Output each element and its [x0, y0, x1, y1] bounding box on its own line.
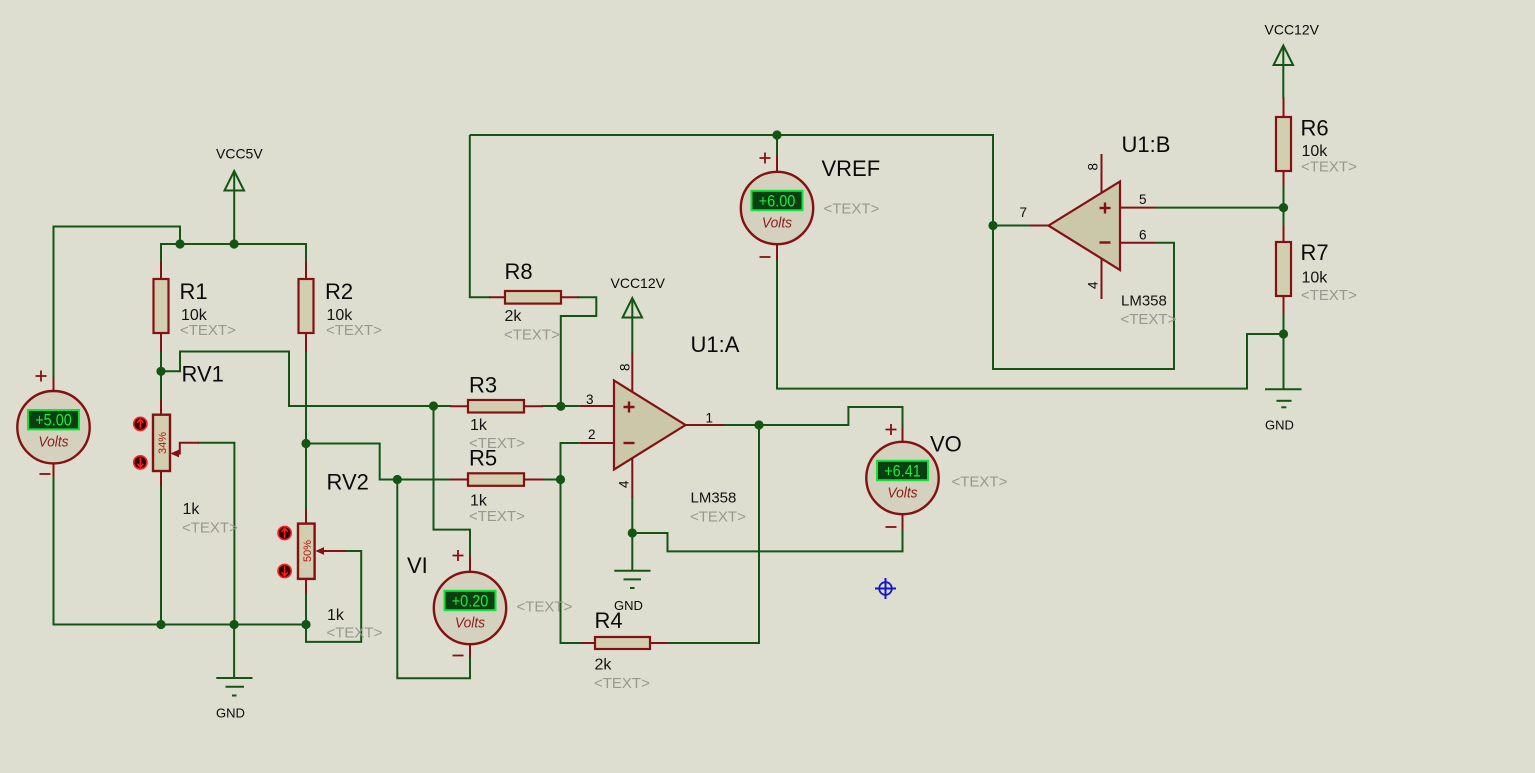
svg-text:2k: 2k [595, 657, 613, 674]
potentiometer RV2 [298, 509, 346, 594]
junction at rail/VCC5V [230, 239, 239, 248]
wire rail to R2 top [305, 243, 307, 263]
junction at rail/M1 [175, 239, 184, 248]
wire RV1 wiper to ground rail [198, 443, 234, 625]
wire output node to R4 feedback [666, 425, 759, 643]
junction R7/GND/VREF- node [1279, 329, 1288, 338]
wire node A to R3 input [161, 352, 451, 407]
wire pin2 node up to U1:A pin2 [561, 443, 580, 480]
svg-text:+6.00: +6.00 [759, 192, 796, 210]
resistor R1 [154, 262, 169, 352]
svg-text:<TEXT>: <TEXT> [326, 322, 382, 339]
svg-text:10k: 10k [1302, 143, 1329, 160]
wire R5 right to pin2 node [542, 479, 561, 481]
svg-text:+5.00: +5.00 [35, 412, 72, 430]
svg-text:U1:A: U1:A [691, 332, 740, 357]
svg-text:Volts: Volts [762, 215, 792, 232]
wire M1+ to VCC5V rail [54, 227, 181, 379]
svg-text:34%: 34% [157, 432, 169, 454]
junction U1:A output node [754, 420, 763, 429]
svg-text:VCC12V: VCC12V [611, 275, 666, 291]
svg-text:2: 2 [588, 427, 596, 442]
svg-text:GND: GND [216, 706, 245, 721]
wire R3 right to pin3 node [542, 405, 580, 407]
svg-text:6: 6 [1139, 228, 1147, 243]
svg-text:R2: R2 [325, 279, 353, 304]
resistor R2 [299, 262, 314, 352]
junction VREF+ on top loop [772, 130, 781, 139]
wire R6 bottom to divider node [1283, 184, 1285, 208]
junction ground rail / RV2 [301, 620, 310, 629]
resistor R6 [1276, 97, 1291, 185]
junction node B R2/RV2 [301, 439, 310, 448]
label U1:B [1121, 132, 1177, 328]
svg-text:1k: 1k [183, 501, 201, 518]
label R2 [325, 279, 382, 339]
svg-text:R1: R1 [180, 279, 208, 304]
resistor R4 [581, 637, 667, 649]
label U1:A [690, 332, 746, 526]
svg-text:R8: R8 [505, 259, 533, 284]
label R4 [594, 608, 650, 692]
op-amp U1:B [1030, 154, 1155, 299]
svg-text:5: 5 [1139, 192, 1147, 207]
junction R3/R8 at pin3 [556, 402, 565, 411]
junction R5 line / VI- [393, 475, 402, 484]
svg-text:RV2: RV2 [327, 470, 369, 495]
svg-text:RV1: RV1 [182, 362, 224, 387]
voltmeter VI +0.20 [434, 550, 506, 658]
svg-text:10k: 10k [1302, 270, 1329, 287]
svg-text:<TEXT>: <TEXT> [1301, 159, 1357, 176]
power symbol VCC12V (U1:A) [611, 275, 666, 354]
power symbol VCC12V (R6) [1265, 22, 1320, 99]
svg-text:<TEXT>: <TEXT> [182, 520, 238, 537]
wire U1:B pin5 to R6/R7 divider node [1155, 207, 1284, 209]
junction pin4 / VO- / GND [628, 528, 637, 537]
wire RV1 bottom to rail [160, 485, 162, 625]
label RV2 [327, 470, 383, 642]
label R3 [469, 373, 525, 453]
wire pin7 node to U1:B output [993, 225, 1031, 227]
svg-text:4: 4 [617, 480, 632, 488]
svg-text:<TEXT>: <TEXT> [504, 327, 560, 344]
junction ground rail / RV1 [156, 620, 165, 629]
junction R6/R7 divider node [1279, 203, 1288, 212]
svg-text:Volts: Volts [455, 615, 485, 632]
svg-text:<TEXT>: <TEXT> [1121, 311, 1177, 328]
wire node A to RV1 top [160, 371, 162, 401]
svg-text:2k: 2k [505, 308, 523, 325]
svg-text:1: 1 [706, 411, 714, 426]
label VREF [822, 156, 881, 218]
ground GND (bottom rail) [216, 625, 253, 721]
wire rail to R1 top [160, 243, 162, 263]
svg-text:GND: GND [1265, 418, 1294, 433]
svg-text:R5: R5 [469, 446, 497, 471]
voltmeter VREF +6.00 [741, 153, 813, 261]
wire VREF- to GND node [777, 260, 1284, 389]
svg-text:U1:B: U1:B [1122, 132, 1171, 157]
svg-text:VREF: VREF [822, 156, 881, 181]
wire VREF top loop to U1:B pin6 [470, 135, 1174, 369]
svg-text:Volts: Volts [887, 485, 917, 502]
junction R5/R4 at pin2 [556, 475, 565, 484]
svg-text:7: 7 [1020, 205, 1028, 220]
svg-text:VCC12V: VCC12V [1265, 22, 1320, 38]
label VI [407, 553, 573, 616]
svg-text:4: 4 [1086, 281, 1101, 289]
wire R3 node to VI+ [434, 406, 471, 557]
wire R7 bottom to GND node [1283, 312, 1285, 334]
svg-text:50%: 50% [302, 540, 314, 562]
svg-text:3: 3 [586, 392, 594, 407]
power symbol VCC5V [216, 146, 263, 245]
svg-text:<TEXT>: <TEXT> [952, 474, 1008, 491]
wire U1:A output to VO+ [723, 407, 903, 428]
RV1 up button [134, 417, 147, 430]
RV1 down button [134, 456, 147, 469]
wire VCC5V top rail [161, 243, 306, 245]
svg-text:R6: R6 [1301, 116, 1329, 141]
wire R2 bottom to node B [305, 351, 307, 444]
label R1 [180, 279, 237, 339]
origin crosshair marker [875, 578, 896, 599]
svg-text:<TEXT>: <TEXT> [517, 599, 573, 616]
label R8 [504, 259, 560, 344]
wire VO- to pin4 node [632, 528, 902, 551]
wire RV2 wiper loop to rail [306, 551, 361, 642]
wire VREF loop left riser to R8 [470, 135, 490, 297]
wire VI- to R5 node [397, 480, 470, 679]
junction pin7 node [988, 221, 997, 230]
svg-text:8: 8 [1086, 163, 1101, 171]
label R7 [1301, 240, 1358, 304]
RV2 down button [278, 564, 291, 577]
svg-text:+6.41: +6.41 [884, 462, 921, 480]
wire RV2 bottom to rail [305, 593, 307, 625]
op-amp U1:A [580, 353, 724, 498]
wire R4 left to pin2 node [561, 480, 583, 644]
svg-text:1k: 1k [470, 417, 488, 434]
svg-text:<TEXT>: <TEXT> [180, 322, 236, 339]
svg-text:R3: R3 [469, 373, 497, 398]
svg-text:<TEXT>: <TEXT> [327, 625, 383, 642]
svg-text:<TEXT>: <TEXT> [1301, 287, 1357, 304]
svg-text:<TEXT>: <TEXT> [824, 201, 880, 218]
svg-text:<TEXT>: <TEXT> [469, 508, 525, 525]
svg-text:8: 8 [618, 363, 633, 371]
ground GND (R7) [1265, 334, 1302, 433]
svg-text:+0.20: +0.20 [452, 592, 489, 610]
svg-text:VI: VI [407, 553, 428, 578]
voltmeter M1 +5.00 [17, 371, 89, 478]
wire M1- and bottom ground rail [54, 476, 307, 625]
ground GND (U1:A pin4) [614, 533, 651, 613]
svg-text:R7: R7 [1301, 240, 1329, 265]
RV2 up button [278, 526, 291, 539]
potentiometer RV1 [153, 400, 199, 486]
resistor R7 [1276, 226, 1291, 313]
resistor R5 [450, 473, 543, 486]
wire VREF+ drop [776, 135, 778, 157]
svg-text:<TEXT>: <TEXT> [594, 675, 650, 692]
junction R3 line / VI+ [429, 401, 438, 410]
junction node A R1/RV1 [156, 367, 165, 376]
label R6 [1301, 116, 1358, 176]
svg-text:LM358: LM358 [691, 490, 737, 507]
wire U1:A pin4 to GND node [631, 497, 633, 533]
label RV1 [182, 362, 239, 537]
svg-text:VCC5V: VCC5V [216, 146, 263, 162]
wire node B to R5 input [306, 444, 451, 480]
wire R8 right elbow down to pin3 node [561, 297, 597, 406]
svg-text:LM358: LM358 [1121, 293, 1167, 310]
label VO [930, 432, 1008, 491]
junction ground rail / GND [230, 620, 239, 629]
resistor R8 [489, 291, 579, 304]
wire divider node to R7 top [1283, 208, 1285, 227]
svg-text:<TEXT>: <TEXT> [690, 509, 746, 526]
resistor R3 [450, 400, 543, 413]
svg-text:1k: 1k [327, 607, 345, 624]
wire node B to RV2 top [305, 444, 307, 511]
voltmeter VO +6.41 [866, 424, 938, 529]
svg-text:R4: R4 [595, 608, 623, 633]
svg-text:Volts: Volts [38, 434, 68, 451]
label R5 [469, 446, 525, 526]
svg-text:1k: 1k [470, 493, 488, 510]
svg-text:VO: VO [930, 432, 962, 457]
wire R1 bottom to node A [160, 351, 162, 372]
